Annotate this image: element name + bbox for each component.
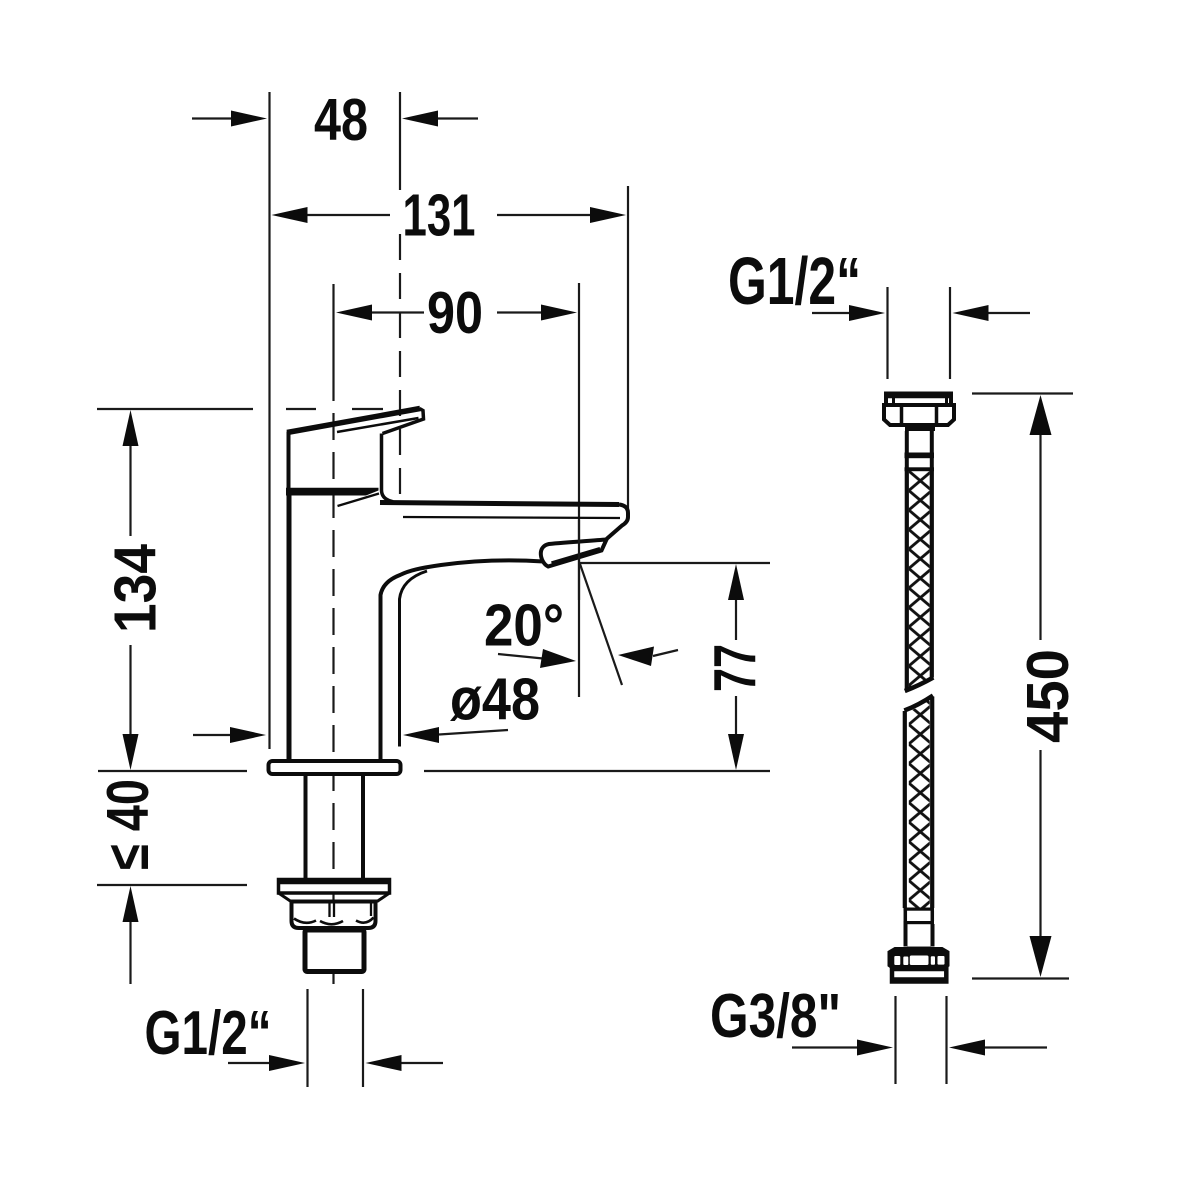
- svg-text:134: 134: [103, 544, 169, 633]
- node dim 90 arrows: [336, 305, 577, 321]
- hose braided lower segment: [904, 696, 933, 909]
- svg-text:G1/2“: G1/2“: [145, 999, 272, 1068]
- node dim 77 arrows: [728, 564, 744, 770]
- faucet deck right nose: [607, 505, 629, 540]
- wire 450 top reference line: [972, 392, 1073, 394]
- hose lower band 2: [904, 921, 935, 924]
- wire countertop reference line: [98, 770, 247, 772]
- hose lower band 1: [904, 908, 935, 911]
- faucet deck inner line: [403, 517, 620, 518]
- wire dim48 left extension line: [268, 92, 270, 749]
- faucet handle right edge: [382, 434, 394, 502]
- hose neck walls 2: [907, 458, 932, 468]
- node bottom G12 arrows: [228, 1055, 443, 1071]
- wire dim48 right extension dashed center: [399, 234, 401, 497]
- faucet shank walls: [306, 775, 364, 880]
- node top G12 arrows: [812, 305, 1030, 321]
- wire top reference line y409: [97, 408, 253, 410]
- hose ferrule band 1: [905, 453, 935, 459]
- faucet handle left edge: [287, 432, 291, 490]
- faucet deck left wedge: [338, 494, 380, 507]
- hose top nut: [884, 405, 954, 425]
- node top G12 extension lines: [888, 287, 951, 379]
- node dim 450 arrows: [1030, 395, 1052, 977]
- svg-text:77: 77: [702, 644, 768, 692]
- hose bottom nut: [889, 949, 948, 970]
- hose neck walls: [907, 431, 932, 453]
- wire lower mounting limit line: [97, 884, 247, 886]
- node G38 arrows: [792, 1040, 1047, 1056]
- wire dim90 left extension solid: [332, 284, 334, 374]
- faucet spout underside: [381, 560, 544, 759]
- hose lower neck walls: [905, 911, 932, 922]
- faucet base flange: [269, 761, 401, 774]
- faucet aerator: [541, 540, 607, 567]
- node dim o48 arrows: [193, 727, 508, 743]
- faucet handle tip: [383, 409, 424, 434]
- faucet handle inner top line: [337, 418, 419, 432]
- svg-text:ø48: ø48: [450, 667, 540, 733]
- hose tube end shadow: [907, 947, 930, 950]
- faucet washer: [277, 880, 391, 902]
- node bottom G12 extension lines: [308, 989, 364, 1087]
- hose ferrule band 2: [905, 467, 935, 471]
- wire center axis dashed: [332, 374, 334, 984]
- hose braided upper segment: [905, 471, 934, 691]
- faucet locknut: [292, 902, 376, 929]
- hose top cap: [885, 394, 952, 406]
- hose bottom cap: [891, 969, 947, 982]
- node dim 134 vertical arrows: [123, 410, 139, 770]
- faucet body inner right line: [400, 571, 428, 747]
- hose lower neck walls 2: [906, 924, 933, 947]
- svg-text:90: 90: [427, 280, 483, 346]
- wire 450 bottom reference line: [972, 977, 1069, 979]
- faucet body left edge: [287, 496, 292, 761]
- svg-text:G3/8": G3/8": [710, 982, 841, 1051]
- svg-text:131: 131: [403, 183, 476, 249]
- faucet handle top edge: [287, 409, 420, 433]
- svg-text:450: 450: [1015, 649, 1081, 743]
- svg-text:G1/2“: G1/2“: [728, 244, 861, 319]
- svg-text:48: 48: [314, 87, 368, 153]
- wire 20deg slanted ray: [580, 564, 622, 685]
- faucet supply block: [305, 930, 364, 972]
- wire 77 top reference line: [580, 562, 770, 564]
- hose collar: [905, 426, 935, 432]
- node dim 48 arrows: [192, 111, 478, 127]
- node 20deg arrows: [498, 647, 678, 669]
- faucet cartridge seam bar: [286, 488, 379, 496]
- svg-text:≤ 40: ≤ 40: [95, 779, 161, 870]
- wire dim90 right extension overlay segment: [578, 520, 580, 600]
- svg-text:20°: 20°: [484, 593, 564, 659]
- wire dim90 right extension line: [578, 283, 580, 697]
- faucet deck top edge: [380, 503, 619, 505]
- wire dim131 right extension line: [627, 186, 629, 521]
- wire dim48 right extension line solid: [399, 92, 401, 190]
- node dim 131 arrows: [272, 207, 627, 223]
- node G38 extension lines: [896, 996, 947, 1084]
- node dim le40 arrow: [123, 886, 139, 984]
